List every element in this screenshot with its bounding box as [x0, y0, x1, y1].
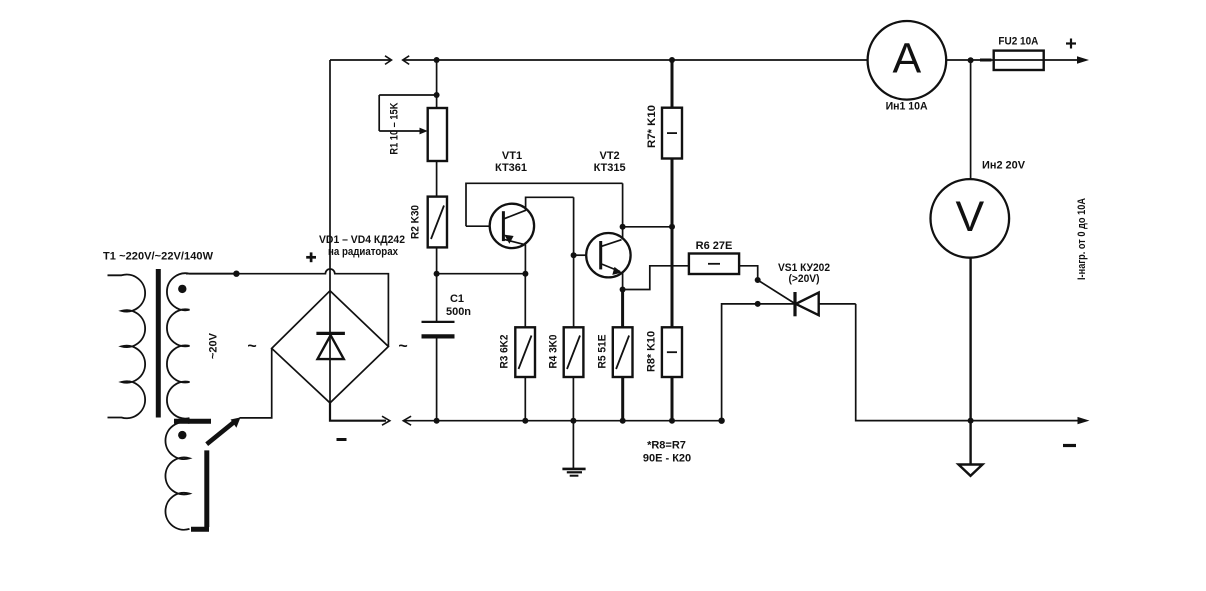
svg-text:R7* K10: R7* K10 — [646, 105, 658, 148]
svg-text:~: ~ — [247, 338, 256, 355]
svg-text:FU2 10А: FU2 10А — [998, 36, 1038, 48]
svg-text:R5 51E: R5 51E — [597, 335, 609, 369]
svg-text:Ин1 10А: Ин1 10А — [886, 101, 928, 113]
svg-text:A: A — [893, 35, 922, 83]
svg-text:R6 27E: R6 27E — [696, 240, 733, 252]
svg-text:R2 K30: R2 K30 — [410, 205, 422, 239]
svg-text:R1 10 – 15K: R1 10 – 15K — [389, 103, 401, 155]
svg-text:VT1: VT1 — [502, 150, 522, 162]
svg-text:на радиаторах: на радиаторах — [328, 246, 399, 258]
svg-text:~20V: ~20V — [208, 332, 220, 359]
svg-text:~: ~ — [398, 338, 407, 355]
svg-text:R3 6K2: R3 6K2 — [499, 335, 511, 369]
svg-text:*R8=R7: *R8=R7 — [647, 440, 686, 452]
svg-text:VD1 – VD4 КД242: VD1 – VD4 КД242 — [319, 234, 405, 246]
svg-text:Т1 ~220V/~22V/140W: Т1 ~220V/~22V/140W — [103, 251, 214, 263]
svg-text:(>20V): (>20V) — [789, 273, 820, 285]
svg-text:КТ361: КТ361 — [495, 162, 527, 174]
svg-text:R8* K10: R8* K10 — [645, 331, 657, 372]
svg-text:V: V — [955, 193, 984, 241]
svg-text:КТ315: КТ315 — [594, 162, 626, 174]
svg-text:90E - К20: 90E - К20 — [643, 453, 691, 465]
svg-text:VT2: VT2 — [600, 150, 620, 162]
svg-text:500n: 500n — [446, 306, 471, 318]
svg-text:Ин2 20V: Ин2 20V — [982, 159, 1026, 171]
svg-text:C1: C1 — [450, 293, 464, 305]
svg-text:R4 3K0: R4 3K0 — [548, 335, 560, 369]
svg-text:I-нагр. от 0 до 10А: I-нагр. от 0 до 10А — [1076, 198, 1088, 280]
